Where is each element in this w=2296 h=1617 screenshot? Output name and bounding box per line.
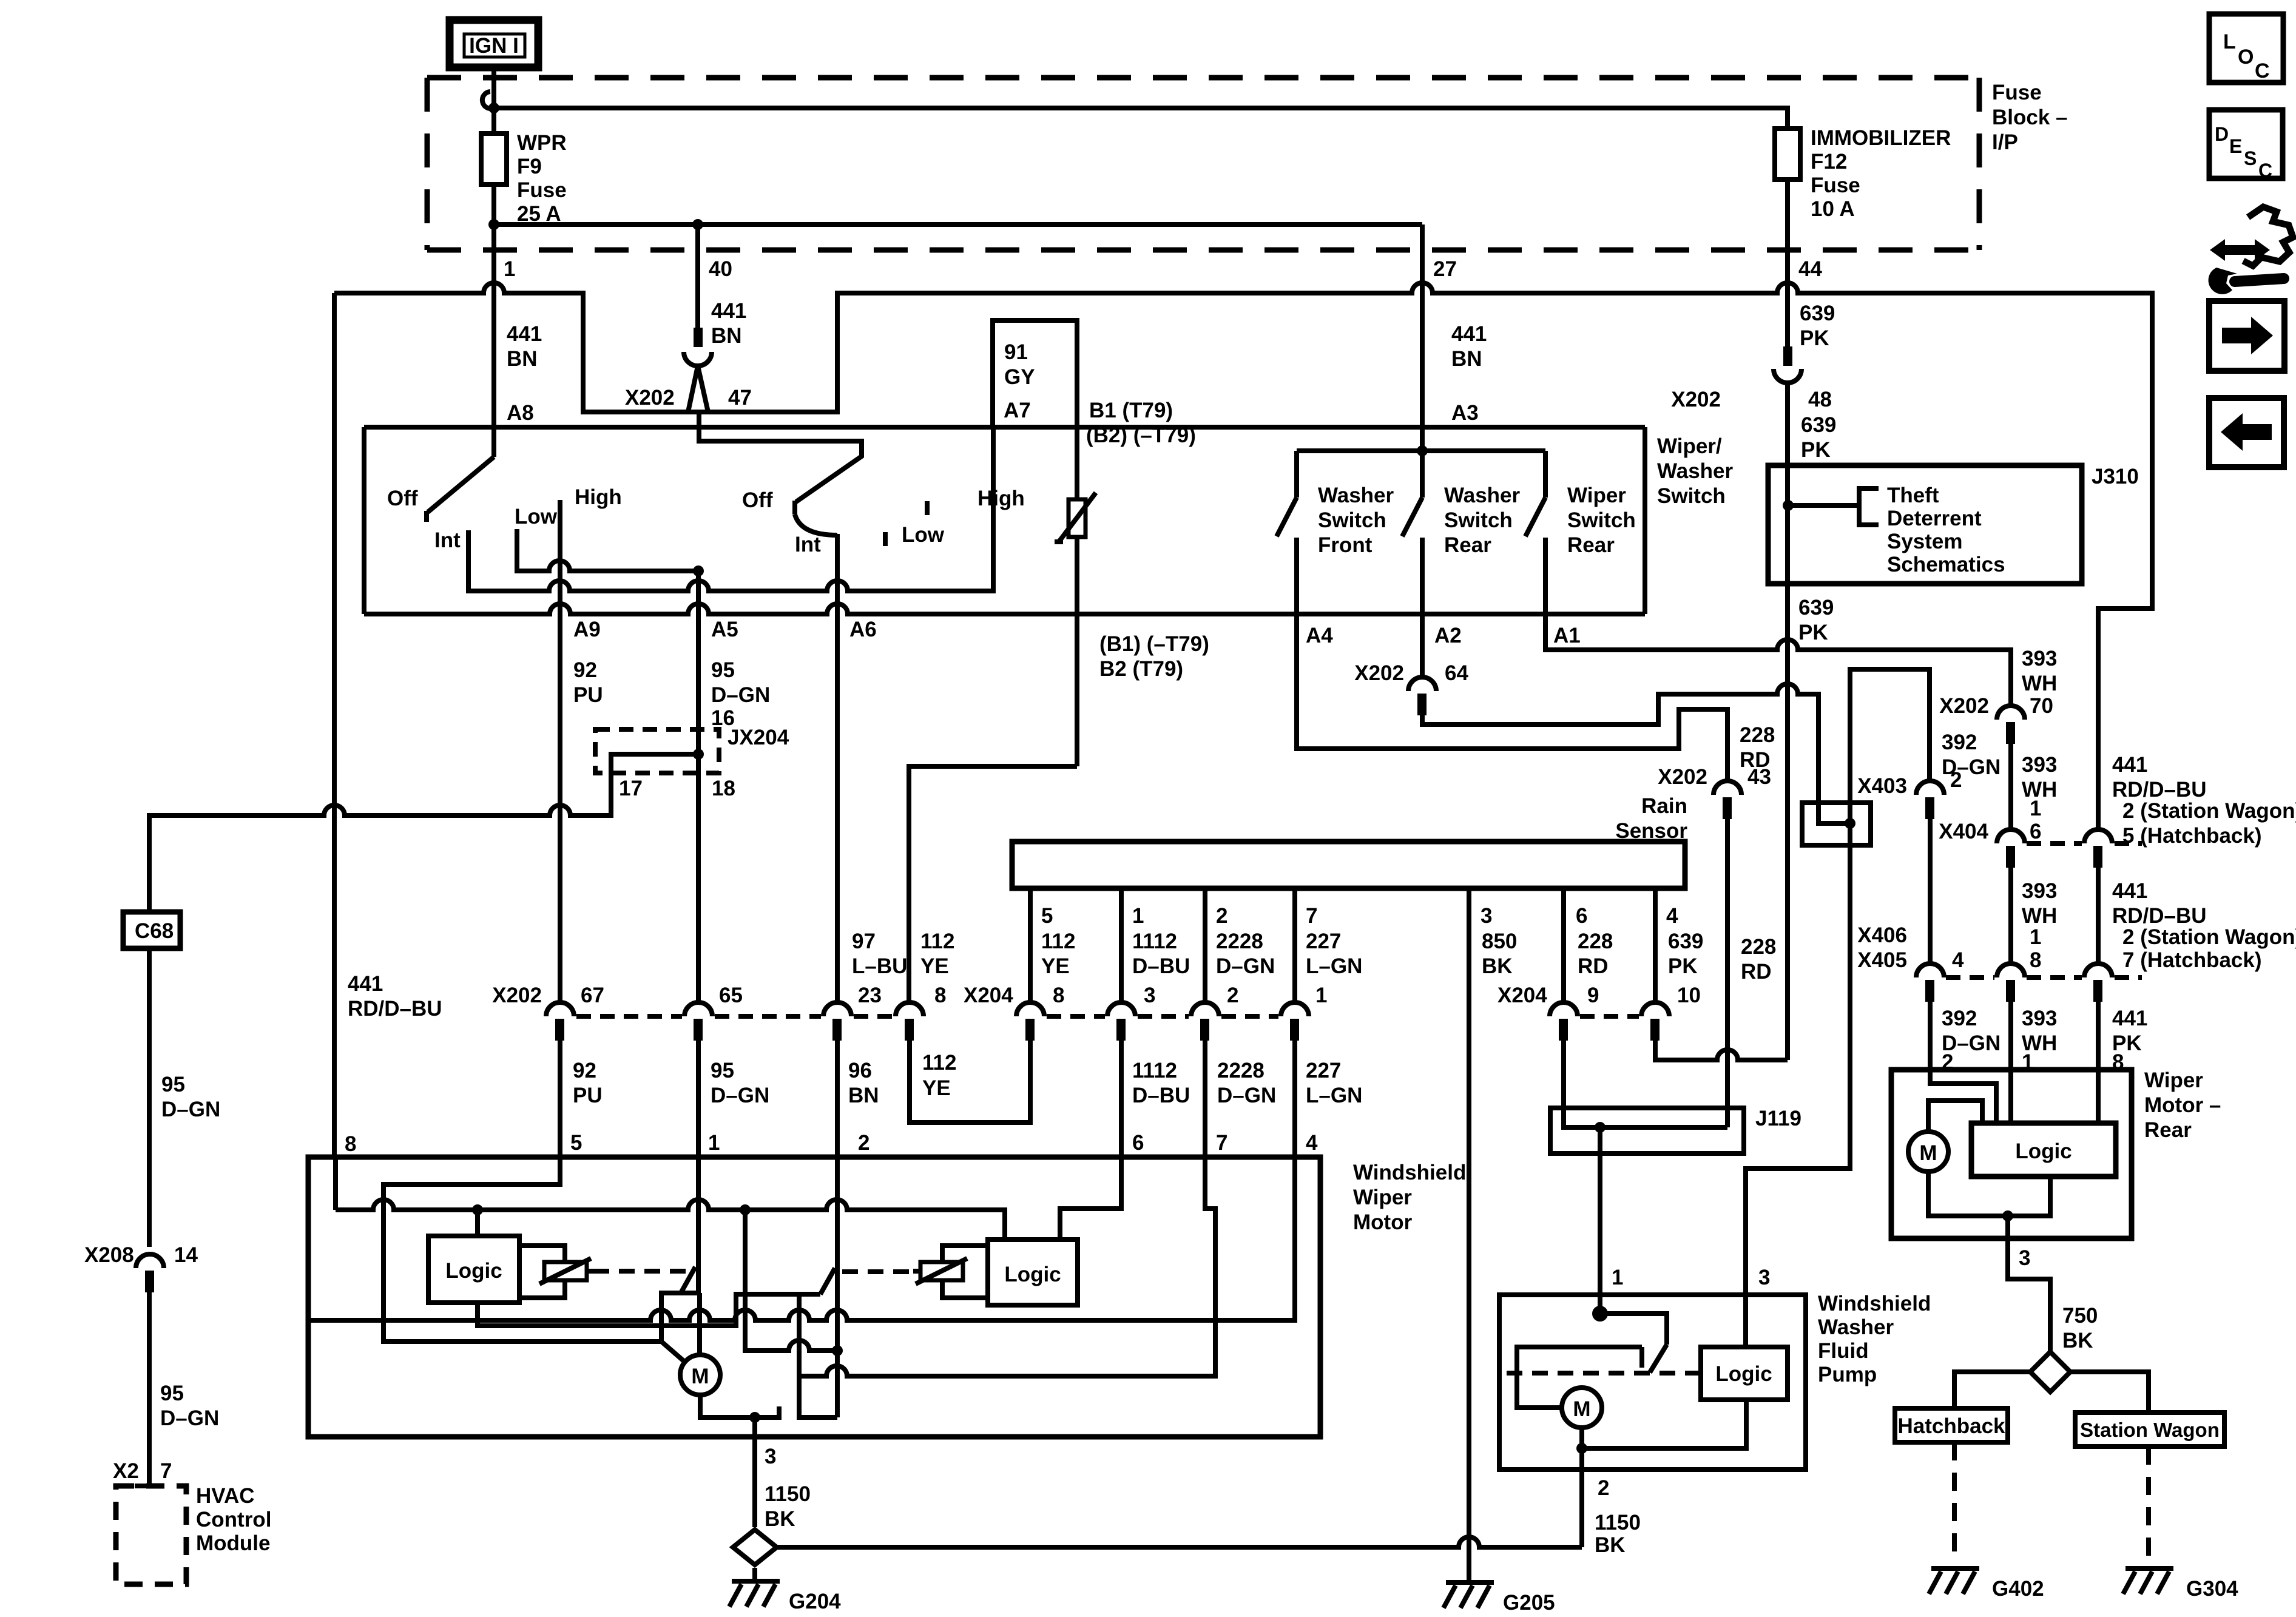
svg-text:441: 441 — [711, 299, 746, 323]
wire High / A9 92 PU down to connector X202-67 — [558, 500, 562, 1002]
svg-text:393: 393 — [2022, 879, 2057, 903]
svg-text:227: 227 — [1306, 930, 1341, 953]
svg-text:10 A: 10 A — [1811, 197, 1855, 221]
rear wiper motor M — [1908, 1132, 1948, 1172]
svg-text:L–GN: L–GN — [1306, 1084, 1362, 1107]
relay 1 fixed contact to motor top — [697, 1293, 702, 1355]
wire pin 1 to run relay arm — [661, 1157, 698, 1342]
svg-text:44: 44 — [1798, 257, 1822, 281]
windshield wiper motor box — [308, 1157, 1320, 1437]
variable resistor symbol — [1055, 493, 1096, 542]
svg-text:X202: X202 — [1939, 694, 1989, 718]
switch gang2 feed and Off arm — [699, 412, 862, 535]
svg-text:17: 17 — [619, 777, 643, 800]
splice diamond 1150 BK — [733, 1530, 777, 1565]
svg-text:8: 8 — [1053, 984, 1064, 1007]
svg-text:X202: X202 — [625, 386, 675, 410]
svg-text:I/P: I/P — [1992, 130, 2018, 154]
svg-text:L: L — [2223, 30, 2236, 53]
rain sensor box — [1012, 842, 1685, 888]
svg-text:2: 2 — [1598, 1476, 1609, 1500]
svg-text:227: 227 — [1306, 1059, 1341, 1082]
junction J119 splice — [1595, 1122, 1606, 1133]
HVAC control module dashed box — [116, 1486, 186, 1584]
svg-text:228: 228 — [1741, 935, 1776, 959]
svg-text:L–GN: L–GN — [1306, 954, 1362, 978]
svg-text:Front: Front — [1318, 533, 1373, 557]
svg-text:92: 92 — [573, 1059, 596, 1082]
svg-text:47: 47 — [728, 386, 752, 410]
svg-text:Logic: Logic — [445, 1259, 502, 1283]
junction washer bus at A3 — [1417, 445, 1428, 456]
wire 95 D-GN to HVAC — [147, 1292, 152, 1486]
svg-text:95: 95 — [711, 1059, 734, 1082]
fuse F9 WPR 25A — [481, 133, 507, 184]
svg-text:PK: PK — [1668, 954, 1698, 978]
wire IGN I to fuse F9 — [491, 67, 496, 133]
svg-text:Washer: Washer — [1657, 459, 1734, 483]
svg-text:639: 639 — [1801, 413, 1836, 437]
svg-text:3: 3 — [1758, 1266, 1770, 1289]
svg-text:A7: A7 — [1004, 399, 1031, 422]
svg-text:D–GN: D–GN — [1942, 755, 2001, 779]
rain sensor pin 6 wire 228 RD — [1561, 888, 1566, 1002]
connector X202 pin 70 — [1939, 694, 2053, 744]
svg-text:X406: X406 — [1857, 923, 1907, 947]
svg-text:BK: BK — [1595, 1533, 1626, 1557]
svg-text:(B1) (–T79): (B1) (–T79) — [1099, 632, 1209, 656]
wire rear washer step to X403 — [1422, 684, 1850, 823]
sidebar icon DESC — [2209, 110, 2283, 181]
svg-text:441: 441 — [2112, 753, 2147, 777]
svg-text:Schematics: Schematics — [1887, 553, 2005, 576]
wire 95 D-GN down to X208 — [147, 948, 152, 1247]
svg-text:1: 1 — [708, 1131, 720, 1155]
logic 1 top pin — [475, 1210, 480, 1236]
svg-text:Switch: Switch — [1657, 484, 1726, 508]
svg-text:D: D — [2215, 123, 2229, 145]
washer switch rear — [1402, 451, 1422, 614]
junction pin2 tie — [832, 1345, 843, 1356]
sidebar icon arrow back — [2209, 398, 2284, 467]
svg-text:Rear: Rear — [1567, 533, 1615, 557]
svg-text:HVAC: HVAC — [196, 1484, 255, 1508]
svg-text:8: 8 — [2030, 948, 2041, 972]
svg-text:10: 10 — [1677, 984, 1701, 1007]
svg-text:RD/D–BU: RD/D–BU — [348, 997, 442, 1021]
svg-text:BN: BN — [507, 347, 538, 371]
svg-text:Wiper: Wiper — [2144, 1068, 2203, 1092]
svg-text:7 (Hatchback): 7 (Hatchback) — [2122, 948, 2262, 972]
svg-text:228: 228 — [1578, 930, 1613, 953]
wire diamond to ground G204 — [752, 1568, 757, 1580]
svg-text:BN: BN — [711, 324, 742, 348]
rain sensor pin 7 wire 227 L-GN — [1292, 888, 1297, 1002]
svg-text:95: 95 — [160, 1382, 184, 1405]
svg-text:Logic: Logic — [1715, 1362, 1772, 1386]
connector X204 pin 9 — [1550, 1002, 1578, 1016]
washer pump logic box — [1701, 1347, 1788, 1400]
svg-text:Station Wagon: Station Wagon — [2080, 1419, 2220, 1441]
svg-text:64: 64 — [1445, 661, 1468, 685]
washer switch feed bus inside switch box — [1297, 448, 1545, 453]
junction node circuit 40 — [692, 219, 703, 230]
relay coil 1 — [519, 1246, 593, 1298]
svg-text:3: 3 — [1481, 904, 1492, 928]
svg-text:B1 (T79): B1 (T79) — [1089, 399, 1173, 422]
svg-text:1150: 1150 — [1595, 1511, 1641, 1534]
svg-text:1150: 1150 — [765, 1482, 811, 1506]
svg-text:C: C — [2258, 160, 2272, 181]
wire motor common — [700, 1395, 782, 1417]
svg-text:7: 7 — [1306, 904, 1317, 928]
wire A2 to connector X202-64 — [1420, 614, 1425, 677]
svg-text:BK: BK — [2062, 1329, 2093, 1352]
svg-text:F9: F9 — [517, 155, 542, 178]
svg-text:Theft: Theft — [1887, 484, 1939, 507]
svg-text:A6: A6 — [849, 618, 877, 641]
connector row X202 (67 65 23 8) — [492, 984, 946, 1041]
wiper motor internal feed bus (pin 8) — [336, 1157, 1005, 1240]
wire bus 441 BN below fuse — [494, 222, 1422, 227]
wire washer pump feed pin 1 — [1598, 1127, 1602, 1314]
rear motor M ground link — [1928, 1172, 2050, 1216]
svg-text:X202: X202 — [1658, 765, 1707, 789]
svg-text:J119: J119 — [1755, 1107, 1801, 1130]
svg-text:639: 639 — [1668, 930, 1703, 953]
svg-text:Motor –: Motor – — [2144, 1093, 2221, 1117]
logic 1 lower output to relay 2 pivot — [478, 1294, 820, 1326]
off-page bracket symbol — [1859, 488, 1879, 525]
svg-text:A5: A5 — [711, 618, 738, 641]
relay coil 2 — [913, 1246, 988, 1298]
park tie wire — [745, 1210, 837, 1351]
rain sensor pin number labels — [1041, 904, 1678, 928]
logic box 1 — [428, 1236, 519, 1303]
svg-text:X403: X403 — [1857, 774, 1907, 798]
svg-text:L–BU: L–BU — [852, 954, 907, 978]
svg-text:27: 27 — [1433, 257, 1457, 281]
power feed box IGN I — [450, 20, 538, 67]
wiper park bus — [308, 1157, 1295, 1320]
svg-text:Deterrent: Deterrent — [1887, 507, 1982, 530]
svg-text:A2: A2 — [1434, 624, 1462, 647]
svg-text:2228: 2228 — [1216, 930, 1263, 953]
svg-text:RD/D–BU: RD/D–BU — [2112, 778, 2207, 802]
svg-text:D–GN: D–GN — [711, 1084, 769, 1107]
svg-text:Fuse: Fuse — [1811, 174, 1860, 197]
junction feed to logic 1 — [472, 1204, 483, 1215]
junction 639 PK to J310 — [1783, 500, 1794, 511]
svg-text:Int: Int — [795, 533, 821, 556]
connector X202 link dashes — [576, 1014, 893, 1019]
connector X204 pin 3 — [1107, 1002, 1135, 1016]
svg-text:Sensor: Sensor — [1615, 819, 1687, 843]
svg-text:RD/D–BU: RD/D–BU — [2112, 904, 2207, 928]
washer pump reversing contact — [1517, 1308, 1667, 1408]
svg-text:Wiper: Wiper — [1353, 1186, 1412, 1209]
connector X204 pin 10 — [1641, 1002, 1669, 1016]
svg-text:YE: YE — [922, 1076, 951, 1100]
svg-text:393: 393 — [2022, 1007, 2057, 1030]
wire 228 RD X202-43 into J119 — [1725, 819, 1730, 1127]
svg-text:IGN I: IGN I — [469, 34, 519, 58]
svg-text:D–BU: D–BU — [1132, 954, 1190, 978]
svg-text:G204: G204 — [789, 1590, 841, 1613]
svg-text:441: 441 — [348, 972, 383, 996]
connector C68 — [123, 912, 180, 948]
svg-text:X202: X202 — [1671, 388, 1721, 411]
wiper motor top pin number labels — [570, 1131, 1318, 1155]
wire colour labels below X204 row — [573, 1059, 1362, 1107]
svg-text:RD: RD — [1741, 960, 1772, 984]
connector X202 pin 67 — [546, 1002, 574, 1016]
svg-text:WH: WH — [2022, 672, 2057, 695]
label Wiper/Washer Switch — [1657, 434, 1734, 508]
svg-text:Control: Control — [196, 1508, 271, 1531]
svg-text:G402: G402 — [1992, 1577, 2044, 1601]
svg-text:System: System — [1887, 530, 1963, 553]
connector X204 pin 8 — [1016, 1002, 1044, 1016]
svg-text:IMMOBILIZER: IMMOBILIZER — [1811, 126, 1951, 150]
wire 227 L-GN to wiper motor pin 4 — [1292, 1041, 1297, 1157]
wire pin 2 low-speed brush — [835, 1157, 840, 1417]
rear motor M top link — [1928, 1101, 1982, 1132]
connector X202 pin 23 — [823, 1002, 851, 1016]
svg-text:9: 9 — [1587, 984, 1599, 1007]
rain sensor pin 2 wire 2228 D-GN — [1203, 888, 1207, 1002]
svg-text:112: 112 — [920, 930, 954, 953]
splice wire 17 inside JX204 to C68 — [149, 754, 698, 912]
junction inside X403 — [1845, 818, 1855, 829]
connector X403 pin 2 cup — [1916, 781, 1944, 795]
delay resistor box 91 GY — [993, 320, 1077, 427]
svg-text:PU: PU — [573, 1084, 603, 1107]
wire to Hatchback — [1954, 1372, 2030, 1408]
wire branch into J310 — [1788, 503, 1859, 508]
A1 wire to X202-70 — [1545, 614, 2011, 706]
svg-text:Fuse: Fuse — [1992, 81, 2042, 104]
rear motor logic box — [1971, 1123, 2116, 1176]
svg-text:Hatchback: Hatchback — [1897, 1414, 2005, 1438]
windshield washer fluid pump box — [1499, 1295, 1806, 1470]
wiper/washer switch box — [364, 427, 1645, 614]
svg-text:X2: X2 — [113, 1459, 139, 1483]
svg-text:D–BU: D–BU — [1132, 1084, 1190, 1107]
svg-text:441: 441 — [2112, 1007, 2147, 1030]
label Fuse Block - I/P — [1992, 81, 2068, 154]
svg-text:5 (Hatchback): 5 (Hatchback) — [2122, 824, 2262, 848]
svg-text:PK: PK — [1801, 438, 1831, 462]
svg-text:91: 91 — [1004, 340, 1028, 364]
svg-text:4: 4 — [1952, 948, 1964, 972]
svg-text:X405: X405 — [1857, 948, 1907, 972]
switch gang2 High contact — [925, 501, 930, 515]
wire high-speed slant into motor — [661, 1342, 684, 1362]
svg-text:750: 750 — [2062, 1304, 2098, 1328]
wire B1/B2 over to 112 YE drop — [909, 766, 1077, 1002]
svg-text:Low: Low — [902, 523, 945, 547]
ground G204 — [729, 1581, 780, 1607]
svg-text:Off: Off — [742, 488, 773, 512]
svg-text:X202: X202 — [1354, 661, 1404, 685]
svg-text:Switch: Switch — [1567, 508, 1636, 532]
svg-text:1: 1 — [2030, 797, 2041, 820]
svg-text:RD: RD — [1740, 748, 1771, 772]
connector X404 pin cups — [1997, 829, 2142, 868]
connector X405/X406 row cups — [1916, 964, 2142, 1002]
ground G304 — [2123, 1568, 2173, 1594]
svg-text:392: 392 — [1942, 1007, 1977, 1030]
svg-text:X204: X204 — [1497, 984, 1547, 1007]
wire X403 down to washer pump pin 3 — [1746, 823, 1850, 1347]
connector X204 pin 2 — [1191, 1002, 1219, 1016]
svg-text:1: 1 — [2030, 925, 2041, 949]
svg-text:7: 7 — [160, 1459, 172, 1483]
wiper switch rear — [1525, 451, 1545, 614]
wire pin 5 high-speed brush — [383, 1157, 661, 1342]
svg-text:X404: X404 — [1939, 820, 1988, 843]
svg-text:Rain: Rain — [1641, 794, 1687, 818]
svg-text:PK: PK — [1800, 326, 1829, 350]
wire 96 BN to wiper motor pin 2 — [835, 1041, 840, 1157]
svg-text:O: O — [2238, 46, 2254, 69]
svg-text:E: E — [2229, 135, 2242, 157]
svg-text:3: 3 — [1144, 984, 1155, 1007]
switch gang1 off contact arm — [427, 457, 494, 522]
svg-text:YE: YE — [920, 954, 949, 978]
svg-text:RD: RD — [1578, 954, 1609, 978]
relay 2 actuation dashed link — [842, 1269, 913, 1274]
label HVAC Control Module — [196, 1484, 271, 1555]
svg-text:Washer: Washer — [1818, 1315, 1894, 1339]
svg-text:228: 228 — [1740, 723, 1775, 747]
svg-text:850: 850 — [1482, 930, 1517, 953]
svg-text:1112: 1112 — [1132, 930, 1177, 953]
rear motor internal wiring — [1930, 1070, 1996, 1123]
svg-text:Motor: Motor — [1353, 1210, 1413, 1234]
svg-text:M: M — [1919, 1141, 1937, 1165]
svg-text:X208: X208 — [84, 1243, 134, 1267]
svg-text:6: 6 — [1576, 904, 1587, 928]
svg-text:6: 6 — [2030, 820, 2041, 843]
svg-text:639: 639 — [1798, 596, 1834, 619]
svg-text:Fuse: Fuse — [517, 178, 567, 202]
rain sensor pin 5 wire — [1028, 888, 1033, 1002]
svg-text:GY: GY — [1004, 365, 1035, 389]
svg-text:Logic: Logic — [1004, 1263, 1061, 1286]
switch gang2 Low contact — [883, 532, 888, 546]
wire A4 228 RD step to X202-43 — [1297, 614, 1727, 781]
svg-text:Low: Low — [515, 505, 558, 528]
svg-text:Switch: Switch — [1318, 508, 1386, 532]
svg-text:Fluid: Fluid — [1818, 1339, 1869, 1363]
svg-text:JX204: JX204 — [728, 726, 789, 749]
svg-text:WPR: WPR — [517, 131, 567, 155]
svg-text:Int: Int — [434, 528, 461, 552]
svg-text:Washer: Washer — [1444, 484, 1521, 507]
label Windshield Washer Fluid Pump — [1818, 1292, 1931, 1386]
connector X204 pin 1 — [1281, 1002, 1309, 1016]
svg-text:112: 112 — [1041, 930, 1075, 953]
washer switch front — [1277, 451, 1297, 614]
svg-text:67: 67 — [581, 984, 604, 1007]
svg-text:97: 97 — [852, 930, 876, 953]
junction JX204 splice — [693, 749, 704, 760]
svg-text:A4: A4 — [1306, 624, 1333, 647]
connector X403 box — [1802, 803, 1871, 845]
svg-text:A3: A3 — [1451, 401, 1479, 425]
svg-text:95: 95 — [161, 1073, 185, 1096]
svg-text:High: High — [575, 485, 622, 509]
connector X202 pin 43 — [1658, 765, 1771, 819]
svg-text:1112: 1112 — [1132, 1059, 1177, 1082]
svg-text:BK: BK — [765, 1507, 795, 1531]
wire 441 BN main distribution bus with hops — [334, 283, 2152, 829]
svg-text:A9: A9 — [573, 618, 601, 641]
wire A6 down to connector X202-23 — [835, 534, 840, 1002]
wire gang1 Int bus to pin A7 — [468, 427, 993, 591]
wiper motor rear box — [1891, 1070, 2132, 1238]
wire 392 D-GN to X405/X406 — [1928, 819, 1933, 964]
wire fuse F12 down to connector X202-48 — [1785, 180, 1790, 348]
svg-text:40: 40 — [709, 257, 732, 281]
relay 1 actuation dashed link — [593, 1269, 689, 1274]
svg-text:D–GN: D–GN — [160, 1406, 219, 1430]
wire 2228 D-GN to wiper motor pin 7 — [1203, 1041, 1207, 1157]
svg-text:1: 1 — [1315, 984, 1327, 1007]
fuse F12 IMMOBILIZER 10A — [1775, 129, 1800, 180]
svg-text:65: 65 — [719, 984, 743, 1007]
logic box 2 — [988, 1240, 1078, 1305]
svg-text:8: 8 — [345, 1132, 356, 1156]
svg-text:1: 1 — [1132, 904, 1144, 928]
svg-text:441: 441 — [507, 322, 542, 346]
rain sensor pin 1 wire 1112 D-BU — [1119, 888, 1124, 1002]
svg-text:14: 14 — [174, 1243, 198, 1267]
svg-text:4: 4 — [1666, 904, 1678, 928]
svg-text:393: 393 — [2022, 753, 2057, 777]
wire pin 6 to logic 2 — [1060, 1157, 1121, 1240]
svg-text:5: 5 — [1041, 904, 1053, 928]
svg-text:1: 1 — [1612, 1266, 1623, 1289]
wire 393 WH to X404 — [2008, 744, 2013, 829]
washer pump motor ground side — [1582, 1400, 1746, 1547]
svg-text:4: 4 — [1306, 1131, 1318, 1155]
svg-text:Module: Module — [196, 1531, 270, 1555]
svg-text:D–GN: D–GN — [1216, 954, 1275, 978]
wire 27 441 BN down to switch pin A3 — [1420, 224, 1425, 451]
svg-text:2 (Station Wagon): 2 (Station Wagon) — [2122, 925, 2296, 949]
svg-text:Block –: Block – — [1992, 106, 2068, 129]
svg-text:A1: A1 — [1553, 624, 1581, 647]
svg-text:96: 96 — [848, 1059, 872, 1082]
wire 92 PU to wiper motor pin 5 — [558, 1041, 562, 1157]
switch gang1 Int contact — [466, 530, 471, 553]
svg-text:Switch: Switch — [1444, 508, 1513, 532]
wire B1/B2 through variable resistor — [1075, 320, 1079, 499]
dashed drop to G304 — [2146, 1447, 2151, 1561]
sidebar icon LOC — [2209, 14, 2283, 83]
wire fuse F9 output down to switch pin A8 — [491, 184, 496, 457]
svg-text:G304: G304 — [2186, 1577, 2238, 1601]
wire A5 95 D-GN down to connector X202-65 — [696, 571, 701, 1002]
splice pack JX204 dashed box — [595, 729, 719, 773]
svg-text:(B2) (–T79): (B2) (–T79) — [1086, 424, 1196, 447]
svg-text:BN: BN — [848, 1084, 879, 1107]
svg-text:B2 (T79): B2 (T79) — [1099, 657, 1183, 681]
Hatchback box — [1895, 1408, 2008, 1442]
